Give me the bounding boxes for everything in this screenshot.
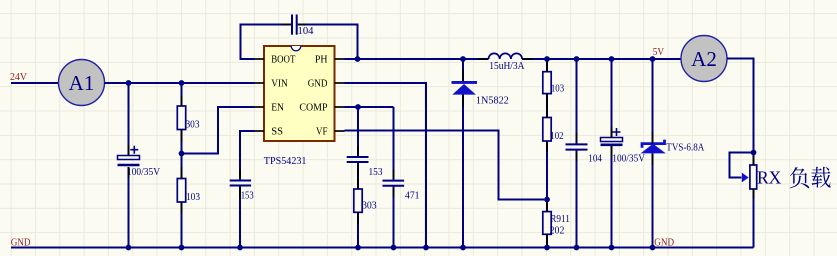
- capacitor 100/35V (input electrolytic): [118, 146, 140, 165]
- pin load resistor top: [753, 156, 755, 165]
- pin cap 471 bottom: [393, 189, 395, 197]
- svg-text:15uH/3A: 15uH/3A: [489, 61, 525, 72]
- pin COMP resistor 303 top: [357, 178, 359, 189]
- junction ground rail / TVS: [650, 245, 656, 251]
- wire resistor 303 to ground rail: [357, 212, 359, 247]
- svg-text:153: 153: [369, 167, 383, 178]
- pin resistor 103 FB top: [546, 62, 548, 72]
- wire output rail to TVS: [652, 59, 654, 144]
- wire load to ground rail: [753, 189, 755, 248]
- pin COMP stub: [335, 106, 345, 108]
- junction input rail / input cap branch: [126, 80, 132, 86]
- capacitor 104 (bootstrap): [292, 15, 297, 35]
- junction ground rail / cap 104: [574, 245, 580, 251]
- wire VF feedback to divider: [345, 131, 545, 200]
- svg-text:R911: R911: [550, 214, 570, 225]
- wire inductor to A2: [522, 58, 681, 60]
- svg-text:104: 104: [298, 26, 314, 37]
- pin input electrolytic bottom: [128, 167, 130, 178]
- svg-text:1N5822: 1N5822: [476, 96, 509, 107]
- capacitor 100/35V (output electrolytic): [601, 128, 623, 145]
- wire output rail to output electrolytic: [611, 59, 613, 138]
- TVS diode TVS-6.8A: [642, 140, 665, 148]
- svg-text:303: 303: [362, 201, 377, 212]
- junction PH / bootstrap: [355, 56, 361, 62]
- capacitor 153 (COMP): [347, 157, 369, 162]
- svg-text:GND: GND: [654, 236, 674, 248]
- pin VF stub: [335, 130, 345, 132]
- wire resistor 102 down to R911: [546, 141, 548, 212]
- pin COMP cap 153 top: [357, 146, 359, 154]
- wire 24V to A1: [11, 82, 59, 84]
- wire GND pin to ground rail: [345, 83, 427, 248]
- svg-text:24V: 24V: [10, 71, 27, 83]
- pin resistor 303 EN bottom: [181, 130, 183, 142]
- pin COMP cap 153 bottom: [357, 165, 359, 177]
- pin load resistor bottom: [753, 189, 755, 199]
- junction ground rail / diode: [460, 245, 466, 251]
- pin PH stub: [335, 58, 345, 60]
- wire wiper loop: [730, 153, 754, 178]
- svg-text:RX: RX: [757, 168, 782, 188]
- pin TVS bottom: [652, 153, 654, 165]
- junction EN node: [179, 151, 185, 157]
- svg-text:100/35V: 100/35V: [612, 154, 645, 165]
- junction ground rail / divider: [544, 245, 550, 251]
- pin resistor 303 EN top: [181, 96, 183, 107]
- pin diode anode: [462, 95, 464, 107]
- svg-text:103: 103: [551, 84, 564, 95]
- pin bootstrap cap right: [299, 24, 308, 26]
- wire soft-start cap to ground rail: [239, 186, 241, 248]
- pin cap 104 bottom: [576, 153, 578, 162]
- label Chinese fu-zai (load): [790, 167, 810, 188]
- wire COMP to cap 471: [393, 107, 395, 181]
- capacitor 153 (soft-start): [230, 181, 251, 186]
- svg-text:BOOT: BOOT: [271, 54, 295, 66]
- pin GND stub: [335, 82, 345, 84]
- junction ground rail / input cap: [126, 245, 132, 251]
- svg-text:303: 303: [186, 120, 200, 131]
- pin resistor R911 top: [546, 203, 548, 212]
- pin resistor R911 bottom: [546, 234, 548, 245]
- svg-text:471: 471: [405, 190, 420, 201]
- wire resistor 303 to resistor 103: [181, 130, 183, 179]
- wire SS pin to soft-start cap: [240, 131, 254, 180]
- wire PH to inductor: [345, 58, 489, 60]
- junction output rail / divider: [544, 56, 550, 62]
- junction ground rail / output electrolytic: [609, 245, 615, 251]
- wire BOOT pin to bootstrap cap: [241, 25, 292, 60]
- wire input cap to ground rail: [128, 167, 130, 248]
- wire COMP pin across: [345, 106, 394, 108]
- junction output rail / TVS: [650, 56, 656, 62]
- wire COMP node down to cap 153: [357, 107, 359, 157]
- wire PH node to diode cathode: [462, 59, 464, 81]
- pin soft-start cap bottom: [239, 189, 241, 200]
- wire A2 to load: [727, 59, 754, 166]
- pin resistor 103 EN bottom: [181, 202, 183, 214]
- wire output rail to resistor 103: [546, 59, 548, 72]
- pin output electrolytic top: [611, 127, 613, 138]
- pin VIN stub: [254, 82, 264, 84]
- pin resistor 102 FB bottom: [546, 141, 548, 152]
- resistor 303 (COMP): [354, 189, 362, 212]
- diode 1N5822: [452, 81, 478, 95]
- junction ground rail / soft-start cap: [237, 245, 243, 251]
- pin cap 104 top: [576, 133, 578, 142]
- svg-text:202: 202: [550, 226, 565, 237]
- pin TVS top: [652, 132, 654, 144]
- capacitor 471 (COMP): [383, 181, 405, 186]
- resistor 103 (EN divider lower): [177, 179, 185, 203]
- svg-text:VIN: VIN: [271, 78, 288, 90]
- svg-text:TVS-6.8A: TVS-6.8A: [666, 142, 705, 153]
- junction input rail / EN divider branch: [179, 80, 185, 86]
- svg-text:TPS54231: TPS54231: [264, 155, 307, 167]
- pin COMP resistor 303 bottom: [357, 212, 359, 224]
- junction load wiper tap: [751, 150, 757, 156]
- svg-text:COMP: COMP: [299, 102, 327, 114]
- pin soft-start cap top: [239, 169, 241, 178]
- resistor 102 (FB divider middle): [543, 118, 551, 142]
- junction feedback node: [544, 197, 550, 203]
- ground rail: [11, 247, 754, 249]
- wire to resistor 303: [181, 83, 183, 106]
- pin diode cathode: [462, 69, 464, 81]
- svg-text:153: 153: [241, 191, 254, 202]
- svg-text:102: 102: [550, 131, 563, 142]
- resistor 303 (EN divider upper): [177, 106, 185, 130]
- svg-text:103: 103: [186, 192, 200, 203]
- junction output rail / output electrolytic: [609, 56, 615, 62]
- pin resistors 103/102 FB joint: [546, 94, 548, 118]
- svg-text:GND: GND: [308, 78, 328, 90]
- svg-text:EN: EN: [271, 102, 284, 114]
- resistor R911 202 (FB divider lower): [543, 212, 551, 235]
- wire bootstrap cap to PH net: [298, 25, 358, 60]
- junction ground rail / IC GND: [423, 245, 429, 251]
- pin BOOT stub: [254, 58, 264, 60]
- pin resistor 103 EN top: [181, 167, 183, 179]
- svg-text:5V: 5V: [653, 47, 665, 58]
- wire down to input cap: [128, 83, 130, 156]
- inductor 15uH/3A: [489, 53, 523, 59]
- junction output rail / cap 104: [574, 56, 580, 62]
- pin input electrolytic top: [128, 145, 130, 156]
- IC notch: [291, 46, 301, 51]
- wire resistor 103 to resistor 102: [546, 94, 548, 118]
- wire diode anode to ground rail: [462, 95, 464, 248]
- capacitor 104 (output ceramic): [566, 144, 588, 149]
- pin EN stub: [254, 106, 264, 108]
- wire EN pin to divider node: [182, 107, 255, 154]
- wire cap 104 to ground rail: [576, 150, 578, 248]
- wire cap 471 to ground rail: [393, 186, 395, 248]
- svg-text:PH: PH: [315, 54, 328, 66]
- pin output electrolytic bottom: [611, 146, 613, 157]
- resistor RX (load): [750, 165, 757, 189]
- svg-text:100/35V: 100/35V: [127, 167, 161, 178]
- pin SS stub: [254, 130, 264, 132]
- wire resistor 103 to ground rail: [181, 202, 183, 248]
- ammeter A1: [59, 60, 105, 106]
- svg-text:GND: GND: [11, 237, 31, 249]
- ammeter A2: [681, 36, 727, 82]
- junction ground rail / cap 471: [391, 245, 397, 251]
- wire output rail to cap 104: [576, 59, 578, 144]
- junction PH / catch diode: [460, 56, 466, 62]
- wire TVS to ground rail: [652, 153, 654, 247]
- junction ground rail / EN divider: [179, 245, 185, 251]
- junction COMP node: [355, 104, 361, 110]
- pin inductor right: [522, 58, 532, 60]
- rheostat wiper arrow: [742, 173, 749, 183]
- pin cap 471 top: [393, 170, 395, 178]
- op-amp U1 TPS54231 body: [264, 46, 335, 141]
- resistor 103 (FB divider upper): [543, 72, 551, 94]
- pin inductor left: [478, 58, 489, 60]
- svg-text:A1: A1: [69, 71, 95, 95]
- svg-text:A2: A2: [691, 47, 717, 71]
- svg-text:VF: VF: [316, 126, 328, 138]
- svg-text:SS: SS: [271, 126, 283, 138]
- svg-text:104: 104: [588, 154, 602, 165]
- wire cap 153 to resistor 303: [357, 162, 359, 189]
- junction ground rail / COMP RC: [355, 245, 361, 251]
- pin bootstrap cap left: [282, 24, 291, 26]
- wire output electrolytic to ground rail: [611, 146, 613, 248]
- wire A1 to VIN pin: [105, 82, 255, 84]
- wire R911 to ground rail: [546, 234, 548, 247]
